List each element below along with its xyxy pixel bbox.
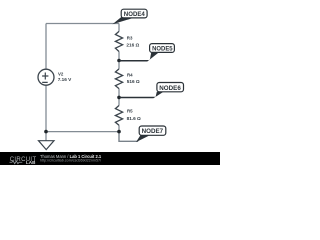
resistor R5 [115,106,122,126]
node NODE4 flag [113,9,148,24]
ground [39,141,55,150]
resistor R3 [115,31,122,51]
wire R3 top lead [118,24,120,32]
resistor R4 [115,69,122,89]
svg-text:R5: R5 [127,109,133,114]
svg-text:NODE4: NODE4 [124,11,145,18]
svg-text:NODE7: NODE7 [142,128,164,135]
wire left vertical V2 bottom lead [45,85,47,131]
svg-text:216 Ω: 216 Ω [126,43,139,48]
svg-text:R4: R4 [127,72,133,77]
svg-text:NODE6: NODE6 [159,85,181,92]
node NODE5 flag [119,44,174,62]
junction bottom-left dot [44,130,48,134]
voltage source V2 [38,69,54,85]
svg-text:http://circuitlab.com/csd369d2: http://circuitlab.com/csd369d22nm57/ [40,158,102,162]
node NODE6 flag [119,83,183,99]
wire left vertical V2 top lead [45,24,47,70]
svg-text:NODE5: NODE5 [152,46,173,53]
wire bottom rail [46,131,119,133]
svg-text:7.16 V: 7.16 V [58,77,72,82]
svg-text:81.6 Ω: 81.6 Ω [127,116,141,121]
svg-text:R3: R3 [127,35,133,40]
footer logo resistor zigzag [10,161,23,164]
wire ground stub [45,132,47,141]
wire node7 leader stub [119,132,138,142]
junction bottom-right dot [117,130,121,134]
footer bar [0,152,220,165]
svg-text:LAB: LAB [26,160,36,165]
junction node5 dot [117,59,121,63]
junction node6 dot [117,96,121,100]
wire top rail from V2 to resistor chain corner [46,23,119,25]
svg-text:516 Ω: 516 Ω [127,79,140,84]
wire R3 bottom to R4 top through node5 [118,52,120,69]
node NODE7 flag [136,126,166,142]
wire R5 bottom lead [118,125,120,131]
wire R4 bottom to R5 top through node6 [118,89,120,106]
